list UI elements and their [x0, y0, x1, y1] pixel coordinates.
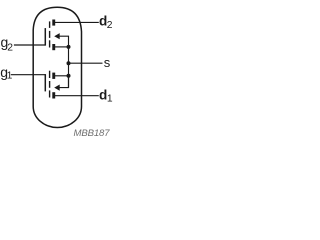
wire: Q2 source line — [55, 46, 69, 48]
transistor Q2 channel segments — [49, 21, 51, 47]
wire: Q1 substrate to source tie — [59, 76, 68, 88]
wire: s lead to pin s — [69, 62, 103, 64]
transistor Q1 gate bar (g1) — [44, 74, 46, 91]
transistor Q2 drain contact pad — [52, 20, 55, 26]
svg-text:1: 1 — [7, 70, 13, 81]
svg-text:MBB187: MBB187 — [74, 128, 111, 139]
node: junction dot Q2 source/substrate — [67, 45, 71, 49]
wire: d1 drain lead (Q1 drain pad to pin d1) — [55, 95, 99, 97]
wire: g1 gate lead — [11, 74, 46, 76]
transistor Q2 source contact pad — [52, 44, 55, 50]
wire: common source vertical bus — [68, 47, 70, 88]
transistor Q2 gate bar (g2) — [44, 28, 46, 45]
wire: g2 gate lead — [14, 44, 45, 46]
node: junction dot at s lead — [67, 61, 71, 65]
svg-text:1: 1 — [107, 94, 113, 105]
transistor Q1 channel segments — [49, 71, 51, 98]
transistor Q1 source contact pad — [52, 73, 55, 79]
svg-text:2: 2 — [7, 43, 13, 54]
package outline (stadium envelope) — [33, 7, 81, 127]
transistor Q1 substrate arrow (points to channel) — [54, 85, 60, 91]
wire: Q2 substrate to source tie — [59, 36, 68, 47]
wire: Q1 source line — [55, 75, 69, 77]
svg-text:s: s — [104, 55, 111, 70]
node: junction dot Q1 source — [67, 74, 71, 78]
transistor Q2 substrate arrow (points to channel) — [54, 33, 60, 39]
transistor Q1 drain contact pad — [52, 92, 55, 98]
svg-text:2: 2 — [107, 20, 113, 31]
wire: d2 drain lead (Q2 drain pad to pin d2) — [55, 21, 99, 23]
